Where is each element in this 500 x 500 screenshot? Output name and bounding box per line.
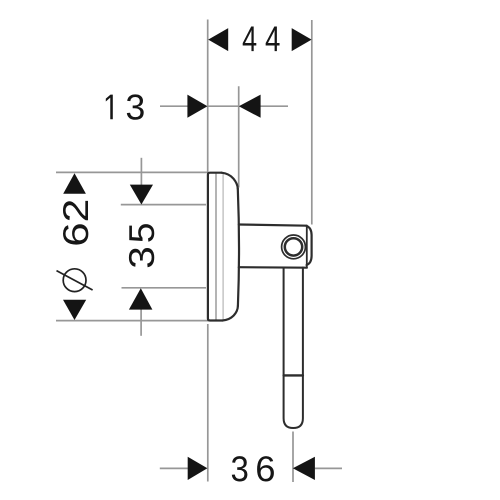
- rosette bottom ogee curve: [223, 306, 238, 321]
- dimension text 35 digit 5 (rotated): [129, 224, 154, 242]
- fixture drawing: [208, 173, 312, 428]
- arrow 13 right: [239, 95, 261, 118]
- dimension text 36 digit 3: [232, 456, 248, 481]
- wire extension line left of 44 (wall line upper segment): [207, 20, 209, 173]
- rosette back plate outline: [208, 173, 223, 321]
- rosette front face: [238, 189, 239, 306]
- arrow 62 top: [63, 173, 86, 194]
- arrows (solid black): [63, 28, 315, 480]
- arrow 44 right: [292, 28, 312, 51]
- diameter symbol circle: [63, 269, 86, 292]
- rosette top ogee curve: [222, 173, 238, 189]
- wire extension line 35 top: [121, 204, 206, 206]
- dimension text 44 digit 4b: [266, 26, 280, 51]
- arrow 36 left: [188, 457, 208, 480]
- wire extension line 44 right: [311, 20, 313, 225]
- wire 36 dimension line left tail: [160, 467, 188, 469]
- dimension text 62 digit 2 (rotated): [63, 201, 88, 220]
- wire stem above 35 top arrow: [140, 158, 142, 185]
- rod joint line: [284, 374, 303, 376]
- screw inner circle: [285, 238, 302, 255]
- dimension text 35 digit 3 (rotated): [129, 248, 154, 267]
- arm right edge: [306, 226, 308, 268]
- wire 13 dimension line right tail: [260, 105, 288, 107]
- wire extension line wall lower segment (36 left): [207, 324, 209, 482]
- wire extension line 35 bottom: [122, 287, 207, 289]
- rosette inner detail line 2: [222, 175, 224, 320]
- dimension text 62 digit 6 (rotated): [63, 224, 88, 244]
- wire stem below 35 bottom arrow: [140, 309, 142, 336]
- arrow 13 left: [187, 95, 207, 118]
- wire extension line 62 bottom: [56, 320, 209, 322]
- arrow 62 bottom: [63, 300, 86, 320]
- arrow 35 top: [130, 185, 153, 205]
- arrow 35 bottom: [129, 288, 153, 309]
- arm end cap: [307, 226, 312, 265]
- wire 13 dimension line left tail: [160, 105, 188, 107]
- wire 13 dimension line middle: [208, 105, 239, 107]
- arrow 36 right: [293, 457, 315, 480]
- rod outline: [284, 268, 303, 429]
- wire extension line 36 right: [292, 432, 294, 483]
- diameter symbol slash: [57, 271, 93, 290]
- screw outer circle: [282, 235, 306, 259]
- wire 36 dimension line right tail: [315, 467, 342, 469]
- rosette inner detail line 1: [215, 174, 217, 320]
- arm bottom edge: [239, 266, 307, 269]
- arrow 44 left: [208, 28, 228, 51]
- arm top edge: [239, 225, 307, 226]
- dimension text 13 digit 3: [127, 94, 144, 119]
- dimension text 44 digit 4a: [243, 26, 257, 51]
- dimension text 36 digit 6: [257, 456, 274, 481]
- wire extension line 62 top: [56, 171, 208, 173]
- wire extension line 13 right: [238, 86, 240, 187]
- dimension text 13 digit 1: [106, 95, 113, 120]
